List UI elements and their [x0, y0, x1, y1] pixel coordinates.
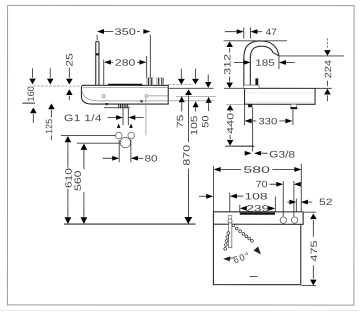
mounting plane dashed line [33, 85, 81, 87]
svg-text:47: 47 [266, 27, 277, 37]
spout foot escutcheon [243, 85, 259, 88]
dimension G1 1/4 [64, 108, 144, 125]
dark slot on body top [108, 84, 142, 86]
svg-text:80: 80 [144, 153, 157, 163]
body top level dashed extension [168, 84, 193, 86]
overflow dash [250, 275, 258, 277]
svg-text:50: 50 [200, 115, 210, 128]
svg-text:870: 870 [182, 145, 192, 166]
escutcheon lower edge [104, 107, 130, 109]
svg-text:70: 70 [256, 179, 268, 189]
svg-text:25: 25 [64, 53, 74, 67]
diverter knob side [255, 78, 258, 85]
dimension 280 [104, 56, 147, 85]
deck plane line side view [224, 87, 245, 89]
dimension 125 [44, 68, 55, 140]
screw hole left [102, 95, 105, 98]
svg-text:280: 280 [115, 58, 135, 68]
dimension 330 [245, 104, 293, 126]
outlet nub under body [290, 104, 297, 109]
dimension G3/8 [245, 149, 295, 160]
dimension 50 [200, 75, 211, 128]
swivel arc beads left [224, 232, 230, 251]
dimension 560 [73, 144, 87, 224]
dimension 25 [64, 53, 74, 100]
dimension 105 [189, 69, 199, 136]
hose connector under body [248, 104, 252, 107]
dimension 160 [22, 68, 36, 123]
tiny up arrows above circles [117, 124, 121, 128]
swivel arc beads right [232, 224, 253, 242]
tub body [213, 224, 300, 284]
deck plane line right of body [168, 87, 213, 89]
hose outlets bottom view: small circles [116, 132, 123, 139]
spout top reference line [224, 40, 287, 42]
big circle outlet [120, 137, 130, 147]
dimension 350 [97, 27, 150, 78]
handshower wand [229, 223, 232, 248]
control knob 2 [157, 78, 164, 85]
svg-text:108: 108 [244, 191, 267, 201]
svg-text:560: 560 [73, 170, 83, 191]
spout tip reference line [279, 55, 344, 57]
50 lower reference line [176, 95, 216, 97]
dimension 47 [225, 27, 277, 39]
handshower head [228, 219, 232, 223]
leader line upper [61, 134, 116, 136]
leader line lower [77, 142, 121, 144]
svg-text:125: 125 [44, 119, 54, 134]
check valve mark right [140, 100, 143, 103]
swan-neck spout [244, 41, 279, 85]
svg-text:440: 440 [225, 113, 235, 134]
dimension 75 [175, 69, 185, 128]
dimension 239 [240, 197, 276, 214]
dimension 108 [199, 191, 268, 211]
svg-text:75: 75 [175, 115, 185, 129]
dimension 475 [301, 212, 319, 285]
dimension 610 [64, 136, 74, 224]
handshower holder [228, 216, 232, 220]
svg-text:185: 185 [255, 58, 275, 68]
deck circles [280, 217, 286, 223]
dimension 70 [256, 179, 301, 216]
svg-text:52: 52 [319, 197, 333, 207]
dimension 80 [103, 140, 158, 164]
mixer body front view [81, 85, 214, 104]
floor baseline [64, 223, 195, 225]
svg-text:330: 330 [258, 116, 277, 126]
svg-text:224: 224 [323, 60, 333, 79]
body side view [245, 88, 316, 104]
check valve mark left [105, 103, 109, 106]
control knob 1 [147, 78, 153, 85]
swivel arrowhead [254, 247, 261, 255]
threaded tailpiece ribs [119, 104, 128, 108]
faint bottom page rule [0, 309, 360, 311]
svg-text:G3/8: G3/8 [269, 149, 295, 160]
dimension 312 [222, 41, 233, 88]
svg-text:580: 580 [243, 165, 270, 175]
svg-text:312: 312 [222, 54, 232, 75]
svg-text:G1 1/4: G1 1/4 [64, 113, 102, 124]
svg-text:239: 239 [246, 204, 269, 214]
440 end line [225, 145, 254, 147]
svg-text:350: 350 [114, 27, 135, 37]
svg-text:105: 105 [189, 116, 199, 136]
dimension 185 [234, 56, 295, 69]
tub deck [213, 212, 303, 224]
svg-text:160: 160 [26, 86, 36, 102]
dimension 224 [323, 38, 333, 101]
leader from right screw [148, 95, 168, 97]
hose line down [252, 107, 254, 151]
dimension 580 [214, 164, 302, 212]
angle 60 deg arrow [223, 249, 252, 265]
dimension 52 [287, 197, 332, 212]
svg-text:475: 475 [309, 240, 319, 261]
joystick handle pin [96, 41, 99, 85]
dimension 870 [182, 89, 193, 224]
dimension 440 [225, 104, 244, 145]
hairline below right screw [145, 98, 147, 135]
screw hole right [145, 94, 148, 97]
